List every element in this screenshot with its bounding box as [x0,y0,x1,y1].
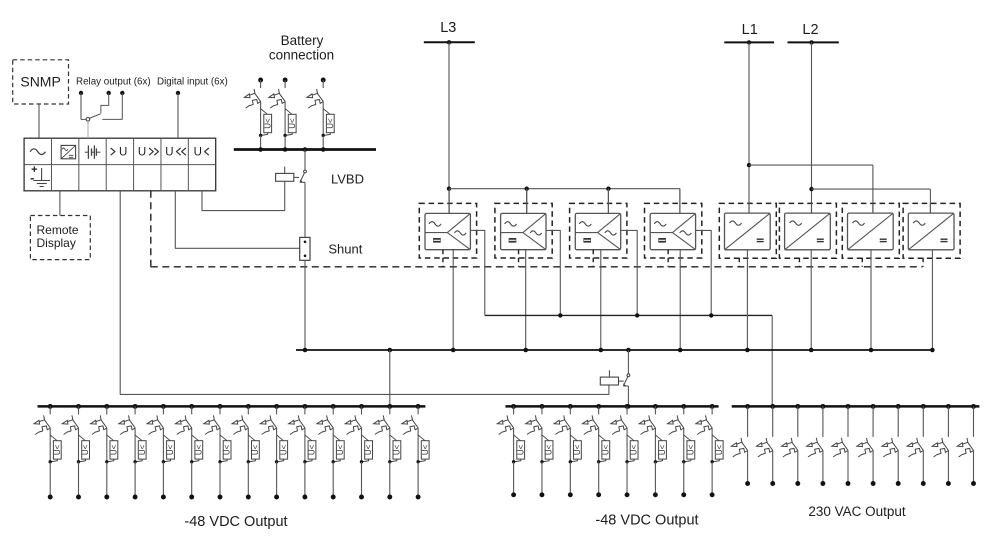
svg-text:U<: U< [715,444,724,455]
svg-text:Shunt: Shunt [328,241,362,256]
svg-text:Remote: Remote [37,223,79,237]
svg-text:U<: U< [166,444,175,455]
svg-text:U<: U< [516,444,525,455]
svg-text:Digital input (6x): Digital input (6x) [157,76,228,87]
svg-text:L1: L1 [742,22,758,38]
svg-text:U<: U< [545,444,554,455]
svg-text:U<: U< [630,444,639,455]
svg-text:U<: U< [573,444,582,455]
svg-text:U<: U< [686,444,695,455]
svg-text:U: U [119,146,127,158]
svg-text:connection: connection [269,48,334,63]
svg-text:U<: U< [421,444,430,455]
svg-text:U<: U< [326,118,335,129]
svg-text:U<: U< [288,118,297,129]
svg-text:U<: U< [223,444,232,455]
svg-text:U<: U< [393,444,402,455]
svg-text:U<: U< [308,444,317,455]
svg-text:U<: U< [251,444,260,455]
svg-text:LVBD: LVBD [331,171,364,186]
svg-text:Battery: Battery [281,33,324,48]
svg-text:U: U [194,146,202,158]
svg-text:U: U [165,146,173,158]
svg-text:L2: L2 [802,22,818,38]
svg-text:U<: U< [601,444,610,455]
svg-text:U<: U< [364,444,373,455]
svg-text:U<: U< [138,444,147,455]
svg-text:U<: U< [263,118,272,129]
svg-text:U<: U< [53,444,62,455]
svg-text:230 VAC Output: 230 VAC Output [808,504,906,519]
svg-text:Display: Display [37,236,76,250]
svg-text:U<: U< [194,444,203,455]
svg-text:U<: U< [658,444,667,455]
svg-text:L3: L3 [440,20,456,36]
svg-text:U<: U< [81,444,90,455]
svg-text:U<: U< [336,444,345,455]
svg-text:-48 VDC Output: -48 VDC Output [184,514,287,530]
svg-text:U<: U< [279,444,288,455]
svg-text:-: - [30,171,34,185]
svg-text:SNMP: SNMP [20,74,60,90]
svg-text:-48 VDC Output: -48 VDC Output [595,513,698,529]
svg-text:U: U [138,146,146,158]
svg-text:Relay output (6x): Relay output (6x) [76,76,151,87]
svg-text:U<: U< [110,444,119,455]
